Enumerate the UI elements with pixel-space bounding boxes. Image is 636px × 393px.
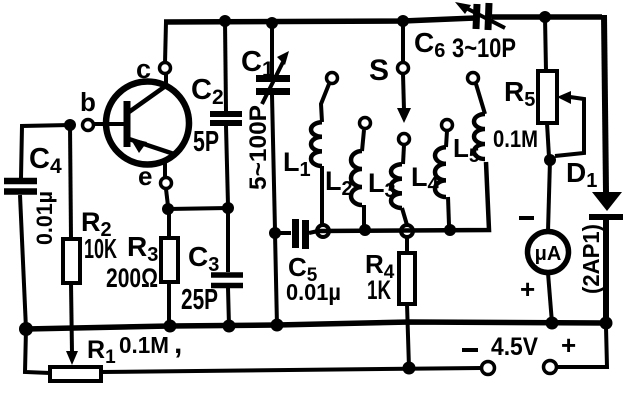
wire C4 to ground rail xyxy=(20,195,26,329)
node R5 bottom junction xyxy=(544,154,556,166)
capacitor C5 xyxy=(280,219,318,249)
node L4 bottom xyxy=(444,224,456,236)
node L2 top terminal xyxy=(360,118,371,129)
svg-text:0.1M: 0.1M xyxy=(493,126,538,153)
wire R1 to battery minus xyxy=(101,368,481,372)
wire top rail right xyxy=(492,14,602,20)
wire ground rail xyxy=(26,322,606,329)
svg-text:D1: D1 xyxy=(566,157,597,192)
svg-text:C6: C6 xyxy=(414,27,445,62)
wire R3 bottom xyxy=(167,282,171,326)
wire e node to C3 xyxy=(168,208,228,209)
capacitor C4 xyxy=(4,181,37,192)
transistor Q1 xyxy=(106,82,189,165)
capacitor C2 xyxy=(210,114,242,123)
svg-text:C3: C3 xyxy=(188,241,219,276)
wire coil bottom bus xyxy=(318,162,489,231)
svg-text:3~10P: 3~10P xyxy=(452,33,516,63)
svg-text:μA: μA xyxy=(535,243,562,265)
node L1 bottom xyxy=(317,225,329,237)
wire S stem xyxy=(401,21,405,62)
wire C1 bottom xyxy=(272,95,275,230)
wire rail to R1 xyxy=(25,329,50,373)
wire node down to rail xyxy=(275,233,277,326)
node L3 top terminal xyxy=(399,134,410,145)
wire collector into transistor xyxy=(164,74,168,86)
node C2 rail junction xyxy=(219,15,231,27)
wire emitter xyxy=(163,162,167,177)
node battery minus terminal xyxy=(482,362,495,375)
node e terminal xyxy=(161,178,172,189)
wire C3 vertical xyxy=(228,211,229,326)
diode D1 xyxy=(589,192,623,217)
svg-text:0.1M: 0.1M xyxy=(119,332,169,358)
svg-text:b: b xyxy=(80,87,96,117)
meter M1 xyxy=(528,232,569,273)
node C3 top junction xyxy=(222,202,234,214)
wire meter top xyxy=(548,160,550,231)
node L4 top terminal xyxy=(442,120,453,131)
capacitor C6 variable xyxy=(455,2,505,30)
wire C2 top xyxy=(225,21,226,111)
svg-text:5~100P: 5~100P xyxy=(245,105,272,190)
svg-text:R5: R5 xyxy=(504,76,535,111)
node R5 rail junction xyxy=(539,11,551,23)
wire meter bottom xyxy=(548,273,552,323)
node C1 rail junction xyxy=(266,17,278,29)
node L2 bottom xyxy=(359,224,371,236)
node meter rail junction xyxy=(546,317,559,330)
wire battery plus to rail xyxy=(557,327,607,367)
resistor R1 xyxy=(50,367,101,381)
svg-text:5P: 5P xyxy=(193,126,219,158)
svg-text:+: + xyxy=(561,330,576,360)
node e junction xyxy=(162,203,174,215)
wire R3 top xyxy=(167,214,171,238)
svg-text:L1: L1 xyxy=(283,147,311,181)
resistor R4 xyxy=(399,253,415,304)
svg-text:+: + xyxy=(520,274,535,304)
wire diode to rail xyxy=(603,217,609,324)
wire L3 to R4 xyxy=(405,237,409,253)
label meter minus xyxy=(519,216,534,220)
wire base xyxy=(94,122,124,126)
svg-text:1K: 1K xyxy=(367,275,391,305)
svg-text:e: e xyxy=(138,161,152,191)
svg-text:C2: C2 xyxy=(191,74,224,109)
wire C1 top xyxy=(270,23,274,76)
wire collector to rail xyxy=(165,22,166,63)
wire R5 bottom xyxy=(547,123,549,157)
svg-text:R3: R3 xyxy=(127,231,158,266)
inductor L3 xyxy=(391,145,407,225)
svg-text:0.01µ: 0.01µ xyxy=(32,191,57,245)
arrow R1 wiper xyxy=(66,351,78,365)
wire b down to R2 xyxy=(70,125,71,239)
node C1 rail junction bottom xyxy=(271,319,284,332)
wire top rail left xyxy=(164,18,475,22)
svg-text:L2: L2 xyxy=(325,166,353,200)
node L5 top terminal xyxy=(468,73,479,84)
wire R2 to R1 wiper xyxy=(71,283,72,353)
resistor R3 xyxy=(161,238,178,282)
capacitor C3 xyxy=(211,275,243,286)
svg-text:(2AP1): (2AP1) xyxy=(578,224,604,294)
wire R4 to battery rail xyxy=(407,304,409,368)
node diode rail junction xyxy=(600,317,613,330)
node battery plus terminal xyxy=(544,361,557,374)
wire b to C4 xyxy=(21,125,70,178)
node L1 top terminal xyxy=(327,73,338,84)
svg-text:4.5V: 4.5V xyxy=(491,333,538,361)
svg-text:0.01µ: 0.01µ xyxy=(286,279,341,305)
svg-text:200Ω: 200Ω xyxy=(106,263,158,293)
svg-text:R1: R1 xyxy=(87,336,116,368)
node C3 rail junction xyxy=(223,320,236,333)
wire R5 wiper xyxy=(555,97,584,156)
inductor L4 xyxy=(435,131,449,225)
node c terminal xyxy=(160,63,171,74)
label battery minus xyxy=(462,348,478,352)
inductor L5 xyxy=(474,84,485,159)
svg-text:C1: C1 xyxy=(241,46,274,81)
wire C2 bottom xyxy=(226,126,228,205)
node C5 junction xyxy=(269,227,281,239)
node S rail junction xyxy=(397,15,409,27)
switch S arrow xyxy=(403,74,404,110)
wire e to node xyxy=(166,189,168,206)
node R4 battery junction xyxy=(403,362,416,375)
node b terminal xyxy=(83,120,94,131)
resistor R2 xyxy=(63,239,80,283)
node b junction xyxy=(64,119,76,131)
wire right vertical to diode xyxy=(604,15,606,192)
svg-text:S: S xyxy=(369,54,389,87)
inductor L2 xyxy=(351,130,364,225)
svg-text:,: , xyxy=(174,327,182,360)
svg-text:C4: C4 xyxy=(29,143,62,178)
capacitor C1 variable xyxy=(256,51,290,104)
wire R5 top xyxy=(545,17,546,71)
switch S pole xyxy=(398,63,409,74)
node L3 bottom xyxy=(401,225,413,237)
inductor L1 xyxy=(311,84,329,226)
svg-text:10K: 10K xyxy=(84,233,117,264)
resistor R5 xyxy=(538,71,557,123)
svg-text:25P: 25P xyxy=(181,284,218,316)
node rail left end xyxy=(19,322,33,336)
node R3 rail junction xyxy=(164,320,177,333)
